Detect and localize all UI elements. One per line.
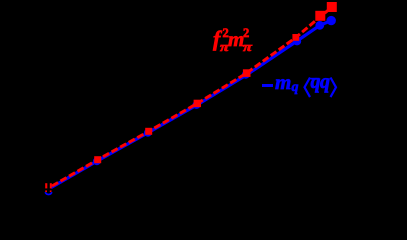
label qbar overline (blue) <box>311 78 320 80</box>
node A origin open marker: blue bottom arc <box>45 192 52 194</box>
node C red square marker <box>145 128 152 135</box>
node A origin open marker: red square stubs <box>45 183 52 192</box>
node E red square marker <box>243 69 251 77</box>
node B red square marker <box>94 156 101 163</box>
label left angle bracket (blue) <box>305 78 311 98</box>
node B' blue circle marker <box>93 157 101 165</box>
node E' blue circle marker <box>242 71 250 79</box>
label qbar q glyphs (blue) <box>311 72 321 92</box>
node D' blue circle marker <box>193 101 201 109</box>
wire red dashed GMOR line <box>52 8 332 187</box>
node H' blue circle marker <box>327 16 336 25</box>
node C' blue circle marker <box>144 129 152 137</box>
wire blue solid condensate line <box>51 21 331 188</box>
label right angle bracket (blue) <box>331 78 337 98</box>
node F' blue circle marker <box>293 37 301 45</box>
node H red square marker <box>327 2 337 12</box>
node F red square marker <box>292 34 299 41</box>
node G red square marker <box>315 11 325 21</box>
node G' blue circle marker <box>315 21 324 30</box>
label f2pi m2pi (red) <box>213 28 220 50</box>
node D red square marker <box>194 100 201 107</box>
label -mq <qbar q> (blue) <box>262 84 273 88</box>
